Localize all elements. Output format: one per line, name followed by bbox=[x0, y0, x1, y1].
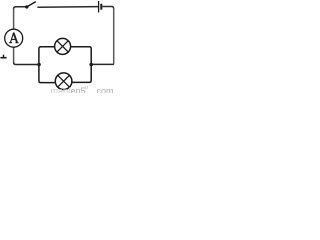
wire: left branch vertical with corners to lamps bbox=[39, 47, 56, 83]
wire: top horizontal left of switch with corner bbox=[14, 7, 27, 9]
wire: bottom main left segment from ammeter corner bbox=[14, 62, 39, 64]
lamp L1: circle bbox=[55, 38, 71, 54]
wire: battery to top-right corner bbox=[102, 7, 113, 9]
switch S blade bbox=[27, 2, 36, 7]
junction dot right node bbox=[89, 63, 93, 67]
wire: right vertical down to bottom corner bbox=[113, 8, 115, 64]
switch S pivot dot bbox=[25, 5, 28, 8]
lamp L2: circle bbox=[55, 73, 72, 90]
wire: left vertical down to ammeter bbox=[13, 8, 15, 29]
junction dot left node bbox=[37, 63, 41, 67]
ammeter A: letter bbox=[9, 33, 19, 43]
battery: short plate (negative) bbox=[100, 4, 102, 10]
lamp L1: cross bbox=[57, 41, 68, 52]
lamp L2: cross bbox=[58, 75, 70, 87]
wire: top horizontal right of switch to battery bbox=[37, 6, 98, 9]
watermark manfen5.com bbox=[51, 87, 86, 96]
wire: ammeter bottom vertical bbox=[13, 47, 15, 62]
ammeter A: circle bbox=[5, 29, 23, 47]
polarity plus sign at ammeter bbox=[0, 57, 6, 59]
battery: long plate (positive) bbox=[98, 1, 100, 12]
wire: bottom main right segment bbox=[91, 63, 114, 65]
wire: right branch vertical with corners to lamps bbox=[71, 47, 92, 83]
